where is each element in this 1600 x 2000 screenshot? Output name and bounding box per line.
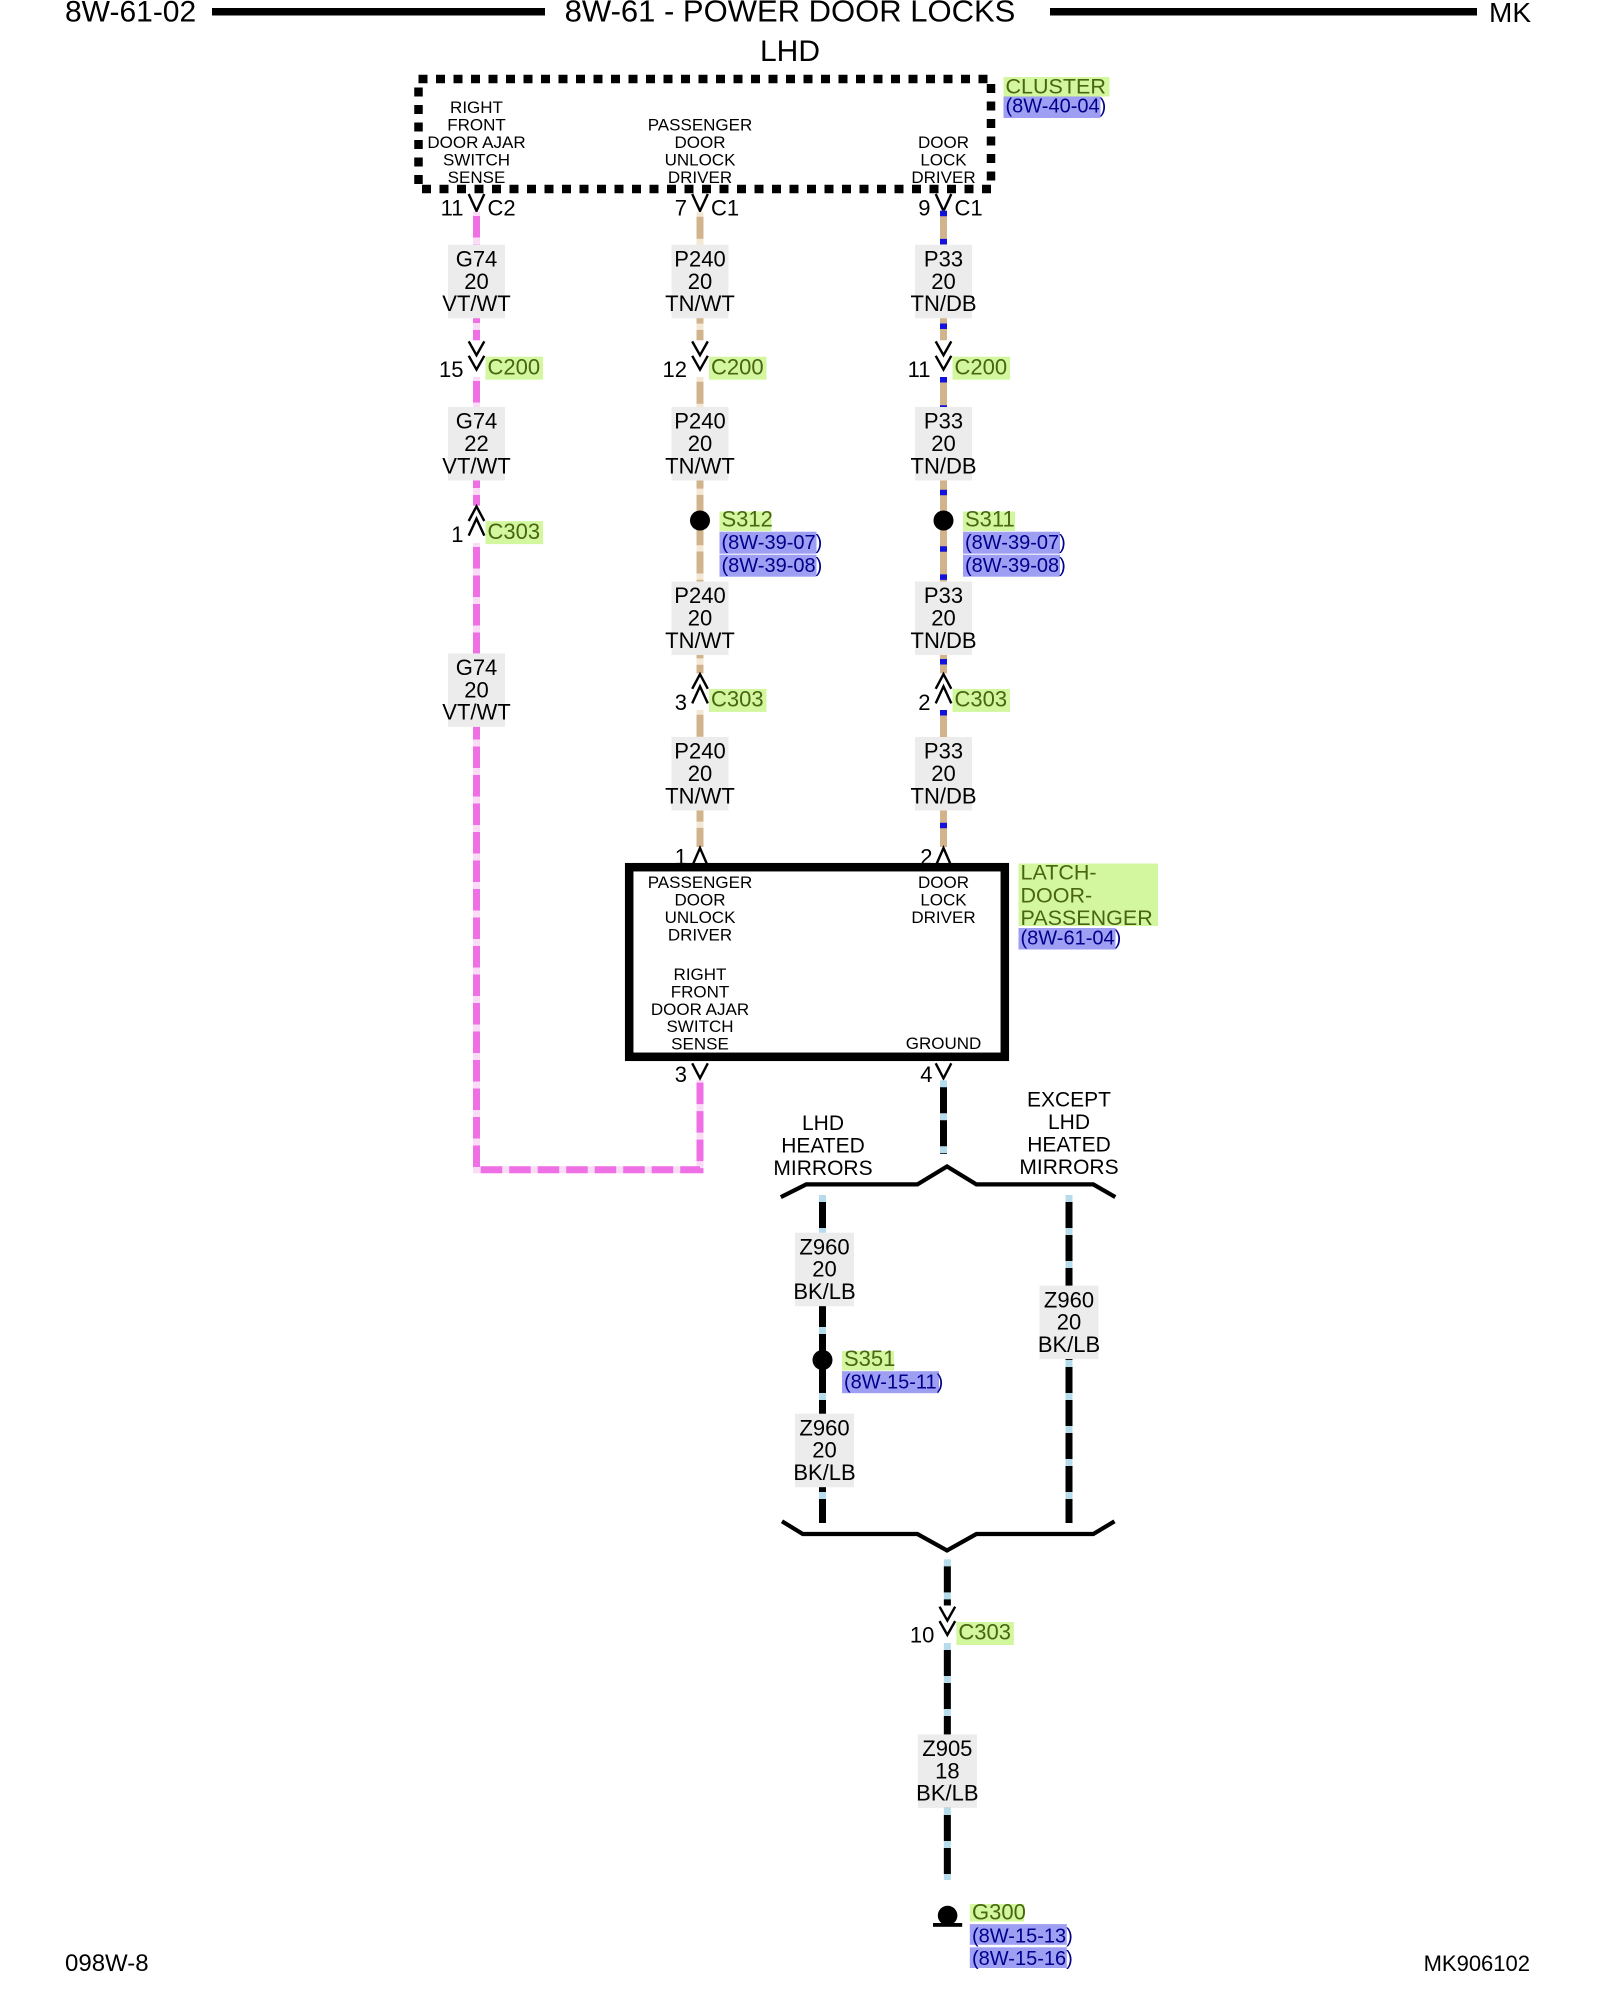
svg-text:(8W-39-08): (8W-39-08) — [965, 555, 1066, 577]
svg-text:SWITCH: SWITCH — [443, 151, 510, 170]
svg-text:UNLOCK: UNLOCK — [665, 908, 737, 927]
svg-text:2: 2 — [918, 690, 930, 715]
svg-text:S312: S312 — [722, 507, 773, 532]
svg-text:TN/DB: TN/DB — [911, 453, 977, 478]
svg-text:G74: G74 — [456, 246, 498, 271]
svg-text:(8W-15-13): (8W-15-13) — [972, 1926, 1073, 1948]
svg-text:DOOR AJAR: DOOR AJAR — [427, 133, 525, 152]
svg-text:Z960: Z960 — [799, 1415, 849, 1440]
svg-text:TN/DB: TN/DB — [911, 291, 977, 316]
svg-text:C303: C303 — [711, 687, 764, 712]
svg-text:P240: P240 — [674, 409, 725, 434]
svg-text:20: 20 — [931, 606, 955, 631]
svg-text:C1: C1 — [955, 196, 983, 221]
svg-text:S351: S351 — [844, 1346, 895, 1371]
svg-text:DOOR: DOOR — [675, 891, 726, 910]
svg-text:12: 12 — [663, 357, 687, 382]
svg-text:(8W-15-16): (8W-15-16) — [972, 1948, 1073, 1970]
svg-text:1: 1 — [451, 522, 463, 547]
svg-text:EXCEPT: EXCEPT — [1027, 1088, 1111, 1111]
svg-text:20: 20 — [688, 606, 712, 631]
svg-text:SENSE: SENSE — [448, 168, 506, 187]
svg-text:C2: C2 — [488, 196, 516, 221]
svg-text:DOOR: DOOR — [918, 133, 969, 152]
svg-text:DOOR AJAR: DOOR AJAR — [651, 1000, 749, 1019]
svg-text:22: 22 — [464, 431, 488, 456]
svg-text:BK/LB: BK/LB — [1038, 1332, 1100, 1357]
svg-text:8W-61 - POWER DOOR LOCKS: 8W-61 - POWER DOOR LOCKS — [565, 0, 1016, 29]
svg-text:BK/LB: BK/LB — [793, 1279, 855, 1304]
svg-text:P33: P33 — [924, 409, 963, 434]
svg-text:20: 20 — [464, 269, 488, 294]
svg-text:C303: C303 — [488, 519, 541, 544]
svg-text:DRIVER: DRIVER — [911, 168, 975, 187]
svg-text:3: 3 — [675, 690, 687, 715]
svg-text:LHD: LHD — [802, 1112, 844, 1135]
svg-text:SENSE: SENSE — [671, 1034, 729, 1053]
svg-text:11: 11 — [441, 196, 464, 221]
svg-text:RIGHT: RIGHT — [450, 98, 503, 117]
svg-text:RIGHT: RIGHT — [674, 965, 727, 984]
svg-text:P240: P240 — [674, 246, 725, 271]
svg-text:LHD: LHD — [760, 35, 820, 68]
svg-text:VT/WT: VT/WT — [442, 291, 510, 316]
svg-text:18: 18 — [935, 1758, 959, 1783]
svg-text:SWITCH: SWITCH — [666, 1017, 733, 1036]
svg-text:20: 20 — [931, 269, 955, 294]
svg-text:FRONT: FRONT — [671, 983, 730, 1002]
svg-text:MIRRORS: MIRRORS — [1019, 1156, 1118, 1179]
svg-text:DRIVER: DRIVER — [911, 908, 975, 927]
svg-text:TN/WT: TN/WT — [665, 783, 735, 808]
svg-text:7: 7 — [675, 196, 687, 221]
svg-text:C200: C200 — [711, 354, 764, 379]
svg-text:20: 20 — [931, 761, 955, 786]
svg-text:4: 4 — [920, 1062, 932, 1087]
svg-text:BK/LB: BK/LB — [916, 1781, 978, 1806]
svg-text:(8W-39-08): (8W-39-08) — [722, 555, 823, 577]
svg-text:(8W-61-04): (8W-61-04) — [1021, 928, 1122, 950]
svg-text:(8W-39-07): (8W-39-07) — [722, 532, 823, 554]
svg-text:LOCK: LOCK — [920, 151, 967, 170]
svg-text:MK906102: MK906102 — [1424, 1951, 1530, 1976]
svg-text:Z960: Z960 — [799, 1234, 849, 1259]
svg-text:G300: G300 — [972, 1900, 1026, 1925]
svg-text:C1: C1 — [711, 196, 739, 221]
svg-text:G74: G74 — [456, 409, 498, 434]
svg-text:20: 20 — [1057, 1310, 1081, 1335]
svg-text:10: 10 — [910, 1622, 934, 1647]
svg-text:Z960: Z960 — [1044, 1287, 1094, 1312]
svg-text:TN/DB: TN/DB — [911, 628, 977, 653]
svg-text:PASSENGER: PASSENGER — [648, 116, 753, 135]
svg-text:LHD: LHD — [1048, 1111, 1090, 1134]
svg-text:(8W-40-04): (8W-40-04) — [1006, 96, 1107, 118]
svg-text:GROUND: GROUND — [906, 1034, 982, 1053]
svg-text:2: 2 — [920, 845, 932, 870]
svg-text:1: 1 — [675, 845, 687, 870]
svg-text:15: 15 — [439, 357, 463, 382]
svg-text:C303: C303 — [955, 687, 1008, 712]
svg-text:20: 20 — [688, 431, 712, 456]
svg-text:20: 20 — [931, 431, 955, 456]
svg-text:FRONT: FRONT — [447, 116, 506, 135]
svg-text:11: 11 — [908, 357, 931, 382]
svg-text:HEATED: HEATED — [1027, 1133, 1111, 1156]
svg-text:TN/WT: TN/WT — [665, 453, 735, 478]
svg-text:Z905: Z905 — [922, 1736, 972, 1761]
svg-text:TN/WT: TN/WT — [665, 628, 735, 653]
svg-text:LATCH-: LATCH- — [1021, 861, 1097, 885]
svg-text:UNLOCK: UNLOCK — [665, 151, 737, 170]
svg-text:DRIVER: DRIVER — [668, 926, 732, 945]
svg-text:DOOR: DOOR — [675, 133, 726, 152]
svg-text:20: 20 — [812, 1257, 836, 1282]
svg-text:PASSENGER: PASSENGER — [1021, 906, 1153, 930]
svg-text:G74: G74 — [456, 655, 498, 680]
svg-text:VT/WT: VT/WT — [442, 453, 510, 478]
svg-text:S311: S311 — [965, 507, 1015, 532]
svg-text:3: 3 — [675, 1062, 687, 1087]
svg-text:DOOR: DOOR — [918, 873, 969, 892]
svg-text:PASSENGER: PASSENGER — [648, 873, 753, 892]
svg-text:9: 9 — [918, 196, 930, 221]
svg-text:DRIVER: DRIVER — [668, 168, 732, 187]
svg-text:P33: P33 — [924, 739, 963, 764]
svg-text:(8W-39-07): (8W-39-07) — [965, 532, 1066, 554]
svg-text:HEATED: HEATED — [781, 1135, 865, 1158]
svg-text:MIRRORS: MIRRORS — [773, 1157, 872, 1180]
svg-text:C200: C200 — [955, 354, 1008, 379]
svg-text:P240: P240 — [674, 583, 725, 608]
svg-text:8W-61-02: 8W-61-02 — [65, 0, 196, 29]
svg-text:20: 20 — [812, 1438, 836, 1463]
svg-text:098W-8: 098W-8 — [65, 1950, 149, 1977]
svg-text:20: 20 — [688, 269, 712, 294]
svg-text:P33: P33 — [924, 246, 963, 271]
svg-text:MK: MK — [1489, 0, 1531, 28]
svg-text:(8W-15-11): (8W-15-11) — [844, 1372, 943, 1394]
svg-text:20: 20 — [688, 761, 712, 786]
svg-text:C303: C303 — [958, 1620, 1011, 1645]
svg-text:DOOR-: DOOR- — [1021, 883, 1093, 907]
svg-text:P240: P240 — [674, 739, 725, 764]
svg-text:TN/DB: TN/DB — [911, 783, 977, 808]
svg-text:P33: P33 — [924, 583, 963, 608]
svg-text:VT/WT: VT/WT — [442, 700, 510, 725]
svg-text:20: 20 — [464, 677, 488, 702]
svg-text:BK/LB: BK/LB — [793, 1460, 855, 1485]
svg-text:TN/WT: TN/WT — [665, 291, 735, 316]
svg-text:C200: C200 — [488, 354, 541, 379]
svg-text:LOCK: LOCK — [920, 891, 967, 910]
